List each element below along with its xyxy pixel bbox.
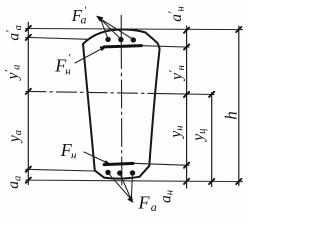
svg-text:yн: yн — [167, 126, 185, 140]
label F_n' — [54, 52, 71, 77]
horizontal centroid axis (dash-dot) — [26, 91, 160, 93]
section outline — [83, 29, 160, 178]
label h (rotated) — [221, 111, 240, 120]
label a_a (rotated) — [5, 176, 23, 189]
top bars level extension line (left) — [26, 37, 90, 39]
svg-text:y′a: y′a — [3, 65, 22, 82]
leader line F_n' — [75, 48, 103, 63]
arrowhead F_n' — [100, 46, 108, 51]
label a_n' (rotated) — [167, 6, 186, 21]
arrowhead F_n — [104, 160, 111, 165]
arrowhead of bottom fan — [127, 196, 133, 203]
label a_a' (rotated) — [5, 25, 24, 41]
svg-text:F: F — [138, 192, 151, 212]
label F_a' — [71, 5, 87, 27]
label y_n (rotated) — [167, 126, 185, 140]
svg-text:′: ′ — [69, 52, 71, 64]
label y_a (rotated) — [6, 130, 24, 144]
leader fan to bottom rebar dots — [108, 173, 133, 200]
tendon bar F_n' — [104, 46, 141, 47]
vertical center axis (dash-dot) — [120, 15, 122, 68]
svg-text:aн: aн — [158, 190, 176, 203]
svg-text:aa: aa — [5, 176, 23, 189]
svg-text:h: h — [221, 111, 240, 120]
svg-text:a′a: a′a — [5, 25, 24, 41]
leader fan to top rebar dots — [101, 19, 134, 40]
label a_n (rotated) — [158, 190, 176, 203]
svg-text:н: н — [65, 65, 71, 77]
arrowhead of top fan — [96, 16, 103, 22]
bottom bars level extension line (left) — [26, 169, 94, 171]
right dimension line y_n — [186, 26, 188, 188]
label F_a — [138, 192, 157, 214]
label y_n' (rotated) — [167, 65, 186, 82]
svg-text:ya: ya — [6, 130, 24, 144]
svg-text:a′н: a′н — [167, 6, 186, 21]
right dimension line y_c — [211, 93, 213, 187]
left dimension line — [27, 23, 29, 185]
svg-text:н: н — [71, 150, 77, 162]
top reference extension line — [26, 29, 243, 30]
dimension tick marks (45 deg slashes) — [26, 26, 242, 184]
svg-text:′: ′ — [85, 5, 87, 17]
bottom tendon level extension line (right) — [133, 163, 189, 165]
rebar dots bottom F_a — [105, 170, 135, 176]
top tendon level extension line (right) — [141, 46, 189, 47]
leader line F_n — [84, 152, 107, 163]
label y_a' (rotated) — [3, 65, 22, 82]
svg-text:y′н: y′н — [167, 65, 186, 82]
label y_c (rotated) — [190, 129, 208, 143]
svg-text:a: a — [151, 200, 157, 214]
svg-text:yц: yц — [190, 129, 208, 143]
rebar dots top F_a' — [105, 37, 136, 43]
right dimension line h — [238, 26, 240, 186]
bottom reference extension line — [26, 180, 243, 182]
label F_n — [60, 140, 77, 162]
tendon bar F_n — [104, 163, 133, 164]
